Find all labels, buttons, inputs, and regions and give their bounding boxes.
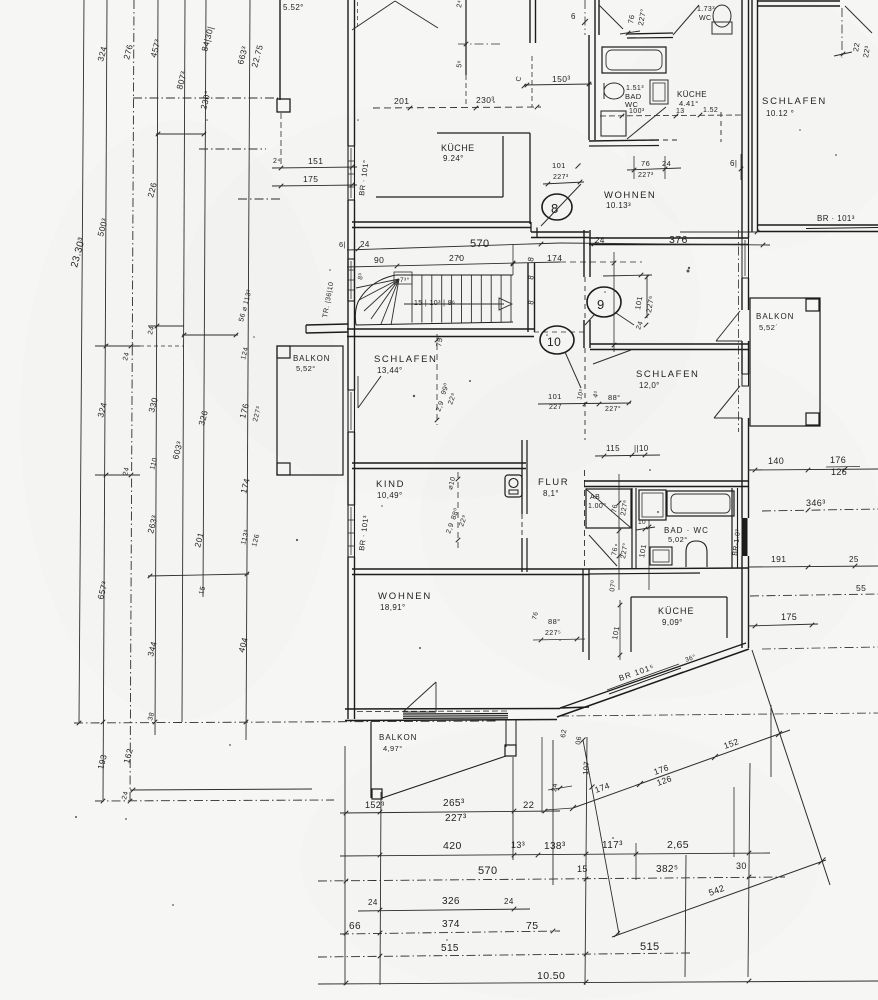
dim line y=567 [748, 564, 878, 570]
west wall mid segment [348, 200, 355, 390]
right flat tick 22 [834, 52, 852, 57]
label 13 [676, 108, 685, 115]
label 101 rot bath [637, 543, 648, 558]
dim line 570 y=244 [347, 242, 560, 252]
label 75 rot [434, 337, 444, 348]
label BALKON 5.52 left [293, 354, 330, 373]
dim label 24 (right of 570) [595, 236, 605, 245]
east wall mid2 [742, 341, 749, 374]
kitchen 9.24 counter right inner [502, 136, 504, 197]
label 115 || 10 [606, 444, 649, 453]
balcony top-left label 5.52 [283, 3, 304, 12]
dim label 230° [198, 89, 213, 110]
toilet top flat [604, 83, 624, 99]
label BR 101-5 diagonal [618, 662, 656, 683]
label FLUR 8.1 [538, 477, 569, 498]
bottom vert x=345 [344, 746, 346, 985]
kitchen 9.24 counter right outer [529, 133, 531, 224]
bottom vert x=749 [748, 763, 750, 977]
dim label 24 [147, 325, 156, 335]
dim label 326 [196, 409, 210, 426]
stove symbol [505, 475, 522, 497]
left horizontal dim y=134 [156, 132, 207, 137]
bottom vert x=514 [512, 757, 514, 860]
label 55 right edge [856, 583, 866, 593]
diag D1 steep [752, 650, 830, 885]
circled 8 [541, 184, 581, 226]
label 6 top [571, 12, 588, 25]
label AB 100-5 [588, 494, 606, 510]
dim label 270 [449, 253, 464, 263]
left long dash-dot y=722 [74, 720, 497, 726]
stairwell right wall [528, 263, 535, 332]
dim label C tick [515, 75, 526, 88]
label 76/227 rot top [626, 8, 648, 26]
staircase with winder treads and up-arrow [355, 272, 513, 325]
dim label 344 [145, 640, 159, 657]
dim chain vertical line 4 (x=157) [155, 0, 158, 735]
label 24 small bottom [548, 783, 572, 793]
label 2 top [456, 0, 464, 68]
labels 76/227 flur rot [611, 499, 630, 516]
dim label 404 [236, 636, 250, 653]
door swing bath top [599, 5, 623, 29]
label SCHLAFEN 13.44 [374, 354, 437, 375]
label 346-5 [806, 498, 826, 508]
label SCHLAFEN 12.0 [636, 369, 699, 390]
flur east wall dashes [584, 470, 586, 568]
divider schlafen/kind wall [352, 463, 526, 469]
flat divider wall A step [531, 222, 537, 238]
east wall mid3 [742, 418, 749, 518]
window label BR-101 (west lower) [357, 515, 370, 552]
balcony top-left wall [279, 0, 281, 100]
dim label 38 [147, 711, 156, 721]
wc bowl top [712, 5, 732, 34]
left horizontal dim y=475 [95, 473, 140, 478]
bottom vert x=636 tick [635, 843, 637, 880]
room label KUECHE 9.24 [441, 143, 475, 163]
vertical dim x=647 [645, 275, 650, 319]
divider kind+flur / wohnen+kueche wall [352, 569, 589, 575]
dim label 226 [145, 181, 159, 198]
label WOHNEN 18.91 [378, 591, 432, 612]
dim label 110 [149, 457, 159, 471]
labels 152/265/227/22 [365, 798, 534, 824]
left horizontal dim y=335 [182, 333, 239, 338]
dim label 84|30| [199, 25, 215, 52]
dim line y=108 (201/230) [373, 105, 541, 111]
label 1.52 [703, 107, 718, 114]
tick y32 [620, 31, 640, 36]
circled 10 [540, 326, 581, 388]
dim label 657³ [95, 580, 109, 601]
labels 570/15/382/30 [478, 861, 747, 877]
dim line y=855 [340, 851, 770, 858]
corridor wall top b [530, 0, 536, 107]
labels TR 36 10 rot [322, 281, 335, 318]
dim label 330 [146, 396, 160, 413]
labels 66/374/75 [349, 919, 538, 932]
dim label 457³ [148, 38, 162, 59]
label 24 rot small [635, 320, 648, 330]
dim line y=812 [340, 809, 560, 816]
kind/flur wall upper [522, 440, 527, 514]
scan specks [75, 101, 837, 941]
dim label 22.75 [249, 43, 265, 68]
left horizontal dim y=346 [95, 344, 184, 349]
labels 515/515 [441, 941, 660, 954]
wc top wall [627, 33, 673, 38]
labels 76 24 (wohnen) [638, 159, 671, 179]
left horizontal dash-dot y=149 [199, 148, 266, 150]
dim line 175 y=186 [272, 183, 357, 189]
balcony497 front edge [382, 756, 506, 798]
dim label 150-5 [552, 74, 571, 84]
dim label 376 [669, 234, 688, 246]
dim label 23.30³ [69, 236, 88, 269]
bathtub bad-wc [667, 491, 734, 516]
label KUECHE 9.09 [658, 606, 695, 627]
sink top flat [650, 80, 668, 104]
stair text 15/10/8 [414, 300, 455, 307]
flur dim vert x=620 [617, 474, 622, 590]
dim label 230-5 [476, 95, 495, 105]
label KUECHE 4.41 [677, 90, 707, 108]
corridor tick y44 [458, 42, 500, 47]
stairwell south wall left stub [306, 324, 348, 333]
balcony top-left corner post [277, 99, 290, 112]
dim label 90 [374, 255, 384, 265]
stair text 7-3 [400, 276, 410, 284]
dim line y=455 (115/10) [595, 453, 660, 459]
dim label 227³ [252, 405, 263, 422]
label 76 rot small [531, 611, 540, 621]
flat divider wall B [531, 232, 589, 238]
label 140 [768, 456, 784, 466]
right flat south window [680, 230, 759, 235]
corridor landing dash y=332 [534, 331, 584, 333]
east outer dashed line [738, 230, 740, 432]
dim label 24 [122, 466, 131, 476]
bottom vert x=542 [541, 737, 543, 813]
label BR-101-3 [806, 214, 878, 229]
vertical dim x=614 [612, 252, 617, 352]
dim label 500³ [95, 217, 109, 238]
dim label 263³ [145, 514, 159, 535]
dim chain vertical line 7 (x=249) [246, 0, 250, 740]
balcony right post top [806, 299, 819, 311]
bottom vert x=685 [685, 855, 686, 977]
labels M 22 right edge [851, 42, 872, 59]
labels 101/227 (schlafen12 left) [548, 388, 601, 411]
balcony right post bottom [806, 413, 819, 425]
dim label 61/24 left [339, 240, 370, 249]
flur door swing to bath [589, 535, 617, 566]
east wall door gap 1 swing [716, 311, 742, 341]
wc bad-wc [686, 541, 707, 567]
stair dim vert x=513 [511, 244, 516, 275]
kind/flur wall lower [522, 538, 527, 572]
dim label 570 [470, 238, 490, 250]
kueche909 counter [631, 597, 727, 652]
dim label 24 small [273, 158, 281, 165]
wohnen bottom wall [345, 707, 589, 721]
shower bad-wc [639, 490, 666, 520]
dim tick line y=275 [603, 273, 652, 278]
dim line 151 y=168 [272, 165, 357, 171]
diag D4 steep short [581, 738, 620, 935]
dim label 15 [198, 585, 207, 595]
dim label 174 [547, 253, 562, 263]
diag D3 542 [612, 858, 826, 938]
dim label 807³ [174, 70, 188, 91]
diagonal window band [607, 664, 683, 698]
west wall bottom segment [348, 557, 355, 719]
dim label 201 [192, 531, 206, 548]
right flat top wall [757, 1, 840, 6]
dim label 126 [251, 533, 261, 547]
left horizontal dash-dot y=98 [133, 97, 278, 99]
labels 62/06/107 [560, 729, 591, 776]
dim dashdot y=880 [318, 875, 785, 884]
label 176/126 [826, 455, 860, 477]
balcony post drop dash [280, 113, 282, 167]
kueche909/wohnen wall [583, 569, 589, 660]
dim line y=625 [748, 623, 818, 629]
label 191 [771, 554, 859, 564]
dim line y=183 corridor [543, 180, 584, 187]
west wall lower-mid segment [348, 432, 355, 505]
east wall door gap 2 swing [714, 386, 742, 418]
bathtub 9.24-flat [602, 47, 666, 73]
east wall window band 2 [742, 374, 749, 386]
left horizontal dash-dot y=199 [238, 198, 282, 200]
shower top flat [601, 111, 626, 136]
left horizontal dim y=575 [148, 572, 250, 579]
right flat dashdot x=842 [841, 8, 843, 58]
bottom vert x=380 [380, 792, 381, 985]
label BALKON 4.97 [379, 733, 417, 753]
balcony left post bottom [277, 463, 290, 475]
kitchen 9.24 counter top line [437, 132, 530, 134]
kind/flur door dash [521, 514, 523, 538]
AB closet [586, 489, 631, 528]
east wall black door bar [742, 518, 748, 556]
dim line y=169 wohnen [627, 156, 681, 179]
diagonal south wall outer [557, 649, 749, 717]
dim label 175 [303, 174, 318, 184]
diagonal south wall inner [560, 643, 746, 708]
wohnen door swing bottom [403, 682, 436, 712]
label BR-1.0 rot (east) [732, 528, 742, 556]
dim dashdot y=956 [318, 952, 690, 959]
labels 101/227 corridor [552, 161, 581, 181]
right flat south wall [757, 225, 878, 232]
dim dashdot y=715 right [560, 713, 878, 716]
balcony497 post right [505, 720, 516, 756]
bottom vert x=734 [733, 787, 735, 857]
east wall bottom segment [742, 556, 749, 648]
door swing top-left [352, 1, 395, 30]
stair riser dim labels 8/8 [526, 274, 536, 305]
east wall top segment [742, 0, 749, 238]
west wall window 2 (y=505..557) [348, 505, 355, 557]
labels 99/22 cluster [435, 382, 458, 413]
left long dash-dot y=801 [95, 799, 334, 804]
bottom vert x=553 [552, 740, 554, 885]
bottom vert x=586 [585, 737, 587, 985]
dim label 151 [308, 156, 323, 166]
divider wall wohnen/schlafen right [590, 344, 748, 364]
dim line y=910 [358, 907, 530, 913]
dim label 162 [121, 747, 135, 764]
window label BR-101 (west upper) [357, 159, 370, 196]
label 61 (wohnen) [730, 154, 743, 180]
dim label 176 [237, 402, 251, 419]
labels 24/326/24 [368, 896, 514, 907]
balcony left outline [277, 346, 343, 475]
labels on D2 [593, 736, 740, 795]
dim chain vertical line 3 dash-dot (x=133) [130, 0, 134, 800]
schlafen12 dim line y=404 [538, 401, 631, 407]
west wall balcony door (y=390..432) [348, 390, 355, 432]
label BAD-WC 5.02 [664, 526, 709, 544]
right flat west wall [752, 0, 758, 232]
dim chain vertical line 2 (x=106) [103, 0, 107, 800]
label 1.73 wc [697, 6, 715, 22]
label 542 [707, 883, 726, 898]
bath west wall [589, 0, 599, 140]
label tick bath [636, 519, 655, 531]
labels 76/227 flur rot2 [611, 542, 630, 559]
dim label 24 [121, 790, 130, 800]
dim label 113³ [240, 529, 251, 546]
dim label 24 [122, 351, 131, 361]
dim dashdot y=595 [750, 594, 878, 596]
label KIND 10.49 [376, 479, 405, 500]
label SCHLAFEN 10.12 [762, 96, 827, 118]
east wall mid segment [742, 278, 749, 310]
right flat door swing top [845, 6, 872, 33]
label 3-6 diagonal [684, 653, 697, 664]
dim chain vertical line 5 (x=184) [182, 0, 185, 722]
sink bad-wc [650, 547, 672, 565]
dim label 324 [95, 401, 109, 418]
labels 88/227 (schlafen12) [605, 393, 621, 413]
schlafen door swing [358, 376, 381, 408]
left horizontal y=790 [130, 788, 312, 793]
ab/shower divider wall [632, 488, 636, 568]
dim label 193 [95, 753, 109, 770]
dim label 124 [240, 346, 250, 360]
corridor wall x=584 dashed [584, 277, 586, 322]
dim label 201 [394, 96, 409, 106]
tick line at D2 left [545, 808, 573, 810]
diag D2 chain [570, 730, 790, 811]
balcony497 west wall [370, 722, 372, 798]
door swing top-left leaf [395, 1, 438, 28]
dim label 324 [95, 45, 109, 62]
labels 420/13/138/117/265 [443, 839, 689, 852]
balcony497 post [372, 789, 382, 799]
dim dashdot y=648 right [762, 647, 878, 649]
bath dim vert x=649 [647, 520, 652, 590]
bath2 north wall [584, 481, 748, 487]
dim line y=470 (140/176/126) [748, 467, 878, 473]
stairwell south wall [347, 329, 534, 337]
labels 88/227 (wohnen right) [533, 617, 585, 642]
dim line 376 y=245 [560, 242, 770, 248]
label 1.51 BAD WC [625, 85, 644, 109]
dim label 8 rot [526, 256, 536, 262]
balcony right outline [750, 298, 820, 426]
kind dim vert x=458 [456, 472, 461, 548]
schlafen dim vert x=437 [435, 334, 440, 425]
bath-wohnen divider wall [589, 140, 659, 146]
dim line y=116 top flat [600, 113, 742, 119]
label 100-3 [629, 108, 645, 115]
dim label 276 [121, 43, 135, 60]
circled 9 [585, 287, 634, 325]
label 07 rot [608, 579, 618, 592]
dim label 603³ [170, 440, 184, 461]
balcony left post top [277, 346, 290, 358]
west wall upper segment [348, 0, 358, 146]
label 175 [781, 612, 797, 622]
labels 101-6/227-6 [633, 295, 656, 314]
bath2 south wall [589, 568, 748, 574]
dim label 663³ [235, 45, 249, 66]
dim label 174 [238, 477, 252, 494]
door swing wc [673, 5, 699, 35]
dim chain vertical line 6 (x=205) [203, 0, 206, 597]
flat divider wall C [589, 238, 748, 245]
dim label 56 ⌀ 113³ [238, 289, 253, 323]
west wall window 1 (y=146..200) [348, 146, 355, 200]
dim dashdot y=933 [340, 929, 560, 936]
kitchen 9.24 counter bottom inner [376, 196, 503, 198]
dim dashdot y=510 [762, 508, 878, 513]
corridor wall x=584 mid [584, 320, 590, 348]
corridor wall x=584 upper [584, 230, 590, 277]
label WOHNEN 10.13 [604, 190, 656, 210]
bottom vert x=771 [770, 705, 772, 777]
west wall stair window (y=259..301) [348, 259, 365, 301]
left horizontal dim y=326 [148, 324, 184, 329]
label BALKON 5.52 right [756, 312, 794, 332]
bottom line y=983 [318, 979, 878, 986]
east wall window band 1 [742, 238, 749, 278]
label 101 rot lower [610, 600, 622, 660]
labels kind cluster [445, 476, 469, 535]
bath2 east inner wall [732, 488, 738, 568]
dim line 290/174 y=264 [347, 261, 642, 269]
kueche south dash [636, 112, 721, 142]
dim chain vertical line 1 (x=82) [79, 0, 84, 722]
dim line y=84 (150) [524, 82, 592, 88]
corridor wall top a [465, 0, 467, 107]
bath door swing [627, 107, 666, 139]
dash-dot vert x=585 top [584, 0, 586, 35]
flat divider wall A [352, 222, 531, 228]
wohnen window bottom [403, 714, 508, 719]
corridor dashes to schlafen [584, 348, 586, 440]
label 10.50 [537, 970, 565, 982]
